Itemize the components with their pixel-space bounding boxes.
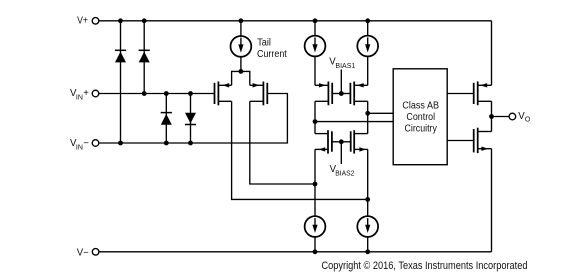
wire output to VO terminal [492,116,510,118]
transistor Q7 output PMOS [474,81,492,105]
wire Q4 drain down to Q6 [367,101,369,133]
svg-text:Circuitry: Circuitry [405,123,437,134]
transistor Q5 VBIAS2 NMOS left [315,130,341,153]
wire V- rail [99,251,492,253]
wire Q3 drain down to Q5 [314,101,316,133]
node VIN+ junction dots [142,91,193,96]
node output junction [489,114,494,119]
wire VIN+ net to M1 gate [99,93,215,95]
svg-text:VBIAS1: VBIAS1 [329,57,355,71]
wire Q8 source to V- rail [491,149,493,252]
svg-text:Current: Current [257,49,287,60]
terminal VIN+ [92,90,99,97]
node I5 on V- rail [365,249,370,254]
node tail: junction dot [239,69,244,74]
diode D2 clamp VIN+ to V+ [139,21,150,94]
wire Q5 source down to current source I4 [314,149,316,216]
transistor Q8 output NMOS [474,128,492,153]
wire tail node to input pair sources [232,71,250,85]
wire box to Q8 gate [447,140,474,142]
svg-text:Control: Control [406,112,435,123]
svg-text:Tail: Tail [257,38,271,49]
current source I4 bottom left [305,216,326,252]
wire Q6 source down to current source I5 [367,149,369,216]
label Class AB Control Circuitry [402,101,439,135]
svg-text:VO: VO [518,111,531,124]
wire VBIAS1 to gate node [340,70,342,94]
terminal V- [92,249,99,256]
node box input 2 junction [313,119,318,124]
wire V+ rail [99,20,492,22]
svg-text:Copyright © 2016, Texas Instru: Copyright © 2016, Texas Instruments Inco… [322,260,528,272]
node VIN- junction dots [118,141,193,146]
node M1 drain junction [365,197,370,202]
transistor Q4 VBIAS1 PMOS right [341,82,367,106]
node VBIAS2 gate junction [339,139,344,144]
svg-text:Class AB: Class AB [402,101,439,112]
wire node to Class AB box upper input [368,112,394,114]
svg-text:VBIAS2: VBIAS2 [330,164,355,178]
node I4 on V- rail [313,249,318,254]
block U1 Class AB Control Circuitry [393,69,447,165]
wire VBIAS2 gate stub [340,142,342,164]
node box input 1 junction [365,111,370,116]
wire output node vertical [491,101,493,131]
node VBIAS1 gate junction [339,91,344,96]
node V+ rail junction dots [118,18,370,23]
current source I3 top right [357,21,378,86]
svg-text:VIN−: VIN− [70,138,89,152]
diode D4 input clamp down [185,94,196,144]
current source I5 bottom right [357,216,378,252]
transistor M2 input PMOS right [250,82,267,106]
current source I2 top left [305,21,326,86]
transistor Q3 VBIAS1 PMOS left [315,82,341,106]
current source I1 tail current [231,21,252,72]
wire V+ rail drop to output PMOS source [491,21,493,86]
transistor M1 input PMOS left [215,82,232,106]
transistor Q6 VBIAS2 NMOS right [341,130,367,153]
wire M2 drain to left bottom current source node [250,101,315,184]
wire M1 drain to right bottom current source node [232,101,368,199]
terminal V+ [92,18,99,25]
svg-text:VIN+: VIN+ [70,88,89,102]
terminal VO [509,113,516,120]
diode D3 input clamp up [161,94,172,144]
svg-text:V+: V+ [77,16,88,27]
diode D1 clamp VIN- to V+ [115,21,126,143]
svg-text:V−: V− [77,248,89,259]
wire node to Class AB box lower input [315,121,393,123]
wire box to Q7 gate [447,93,474,95]
wire VIN- net to M2 gate [99,94,288,144]
terminal VIN- [92,140,99,147]
node M2 drain junction [313,182,318,187]
